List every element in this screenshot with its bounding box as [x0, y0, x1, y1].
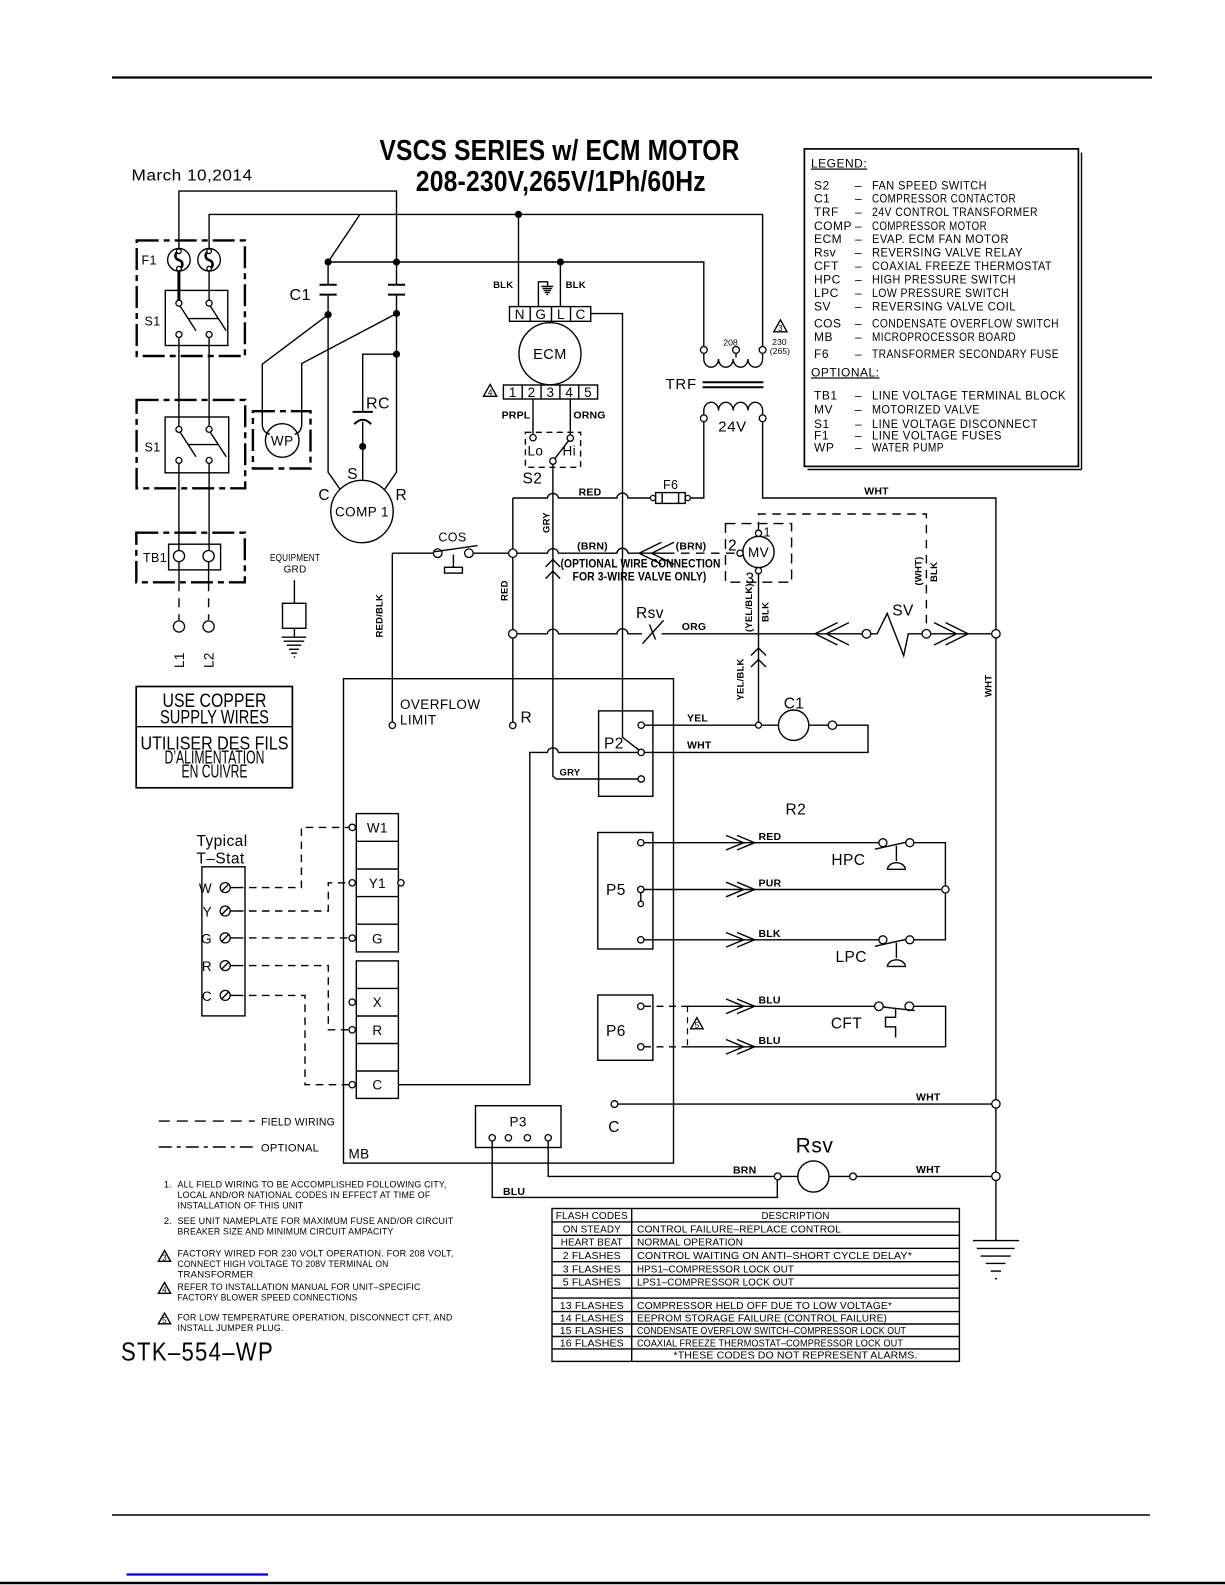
svg-text:ORNG: ORNG [573, 410, 605, 422]
svg-text:ORG: ORG [682, 621, 707, 633]
svg-text:2.: 2. [164, 1216, 172, 1227]
optional wiring legend [159, 1143, 319, 1155]
connector P3 [476, 1106, 562, 1148]
TB1 terminal block enclosure [136, 533, 245, 583]
svg-text:COMPRESSOR HELD OFF DUE TO LOW: COMPRESSOR HELD OFF DUE TO LOW VOLTAGE* [637, 1301, 892, 1312]
svg-text:FACTORY BLOWER SPEED CONNECTIO: FACTORY BLOWER SPEED CONNECTIONS [178, 1293, 358, 1304]
svg-text:MOTORIZED VALVE: MOTORIZED VALVE [872, 403, 980, 417]
connector P2 [599, 711, 653, 796]
svg-text:LPC: LPC [836, 949, 867, 966]
S1 lower dashed enclosure [137, 400, 246, 488]
svg-text:ECM: ECM [814, 232, 842, 246]
svg-text:TRANSFORMER: TRANSFORMER [178, 1270, 254, 1281]
BLK flow chevrons [726, 933, 755, 948]
thermostat label [197, 833, 248, 868]
equipment ground symbol [282, 580, 307, 657]
svg-text:TRF: TRF [665, 376, 697, 393]
field wire R to R [236, 966, 349, 1030]
svg-text:LIMIT: LIMIT [400, 713, 437, 728]
node PUR end [942, 886, 949, 893]
fuse F6 [650, 493, 690, 504]
svg-text:COS: COS [814, 316, 842, 330]
disconnect switch S1 (upper) [165, 290, 228, 345]
svg-text:24V: 24V [718, 419, 747, 436]
wire RED vertical to R pin [512, 498, 514, 722]
F1 fuse block dashed enclosure [137, 240, 245, 356]
svg-text:F6: F6 [663, 478, 678, 492]
svg-text:HIGH PRESSURE SWITCH: HIGH PRESSURE SWITCH [872, 273, 1016, 287]
terminal W1 pin [349, 824, 355, 830]
svg-text:C1: C1 [290, 287, 311, 304]
svg-text:2 FLASHES: 2 FLASHES [563, 1251, 621, 1262]
svg-text:4: 4 [565, 385, 573, 400]
note 2 [164, 1216, 454, 1238]
transformer TRF primary coil [700, 347, 766, 368]
svg-text:L2: L2 [202, 652, 217, 668]
svg-text:W: W [199, 881, 212, 896]
svg-text:5: 5 [584, 385, 592, 400]
svg-text:C: C [576, 307, 586, 322]
svg-text:16 FLASHES: 16 FLASHES [560, 1338, 624, 1349]
wire TB1-2 to L2 [208, 562, 210, 620]
wire C1 pole2 to COMP R [385, 314, 397, 490]
svg-text:P5: P5 [606, 882, 626, 899]
wire COS branch [392, 552, 433, 554]
svg-text:COAXIAL FREEZE THERMOSTAT: COAXIAL FREEZE THERMOSTAT [872, 259, 1052, 273]
warning triangle 5 [691, 1018, 703, 1030]
equipment ground label [270, 553, 320, 576]
svg-text:TRANSFORMER SECONDARY FUSE: TRANSFORMER SECONDARY FUSE [872, 347, 1059, 361]
wire branch diagonal to C1 line 1 [328, 214, 360, 262]
svg-text:2: 2 [528, 385, 536, 400]
svg-text:P3: P3 [510, 1115, 527, 1130]
svg-text:24V CONTROL TRANSFORMER: 24V CONTROL TRANSFORMER [872, 205, 1038, 219]
Rsv left terminal [774, 1173, 781, 1180]
svg-text:C1: C1 [814, 192, 830, 206]
microprocessor board MB outline [344, 679, 674, 1163]
svg-text:R: R [202, 959, 212, 974]
motorized valve MV dashed enclosure [726, 524, 792, 583]
svg-text:WP: WP [814, 440, 834, 454]
svg-text:TB1: TB1 [143, 551, 167, 565]
t-stat terminal C [202, 989, 236, 1004]
overflow limit pin 1 [389, 722, 395, 728]
P3 pin 1 [489, 1135, 495, 1141]
svg-text:FACTORY WIRED FOR 230 VOLT OPE: FACTORY WIRED FOR 230 VOLT OPERATION. FO… [178, 1249, 454, 1260]
P3 pin 3 [524, 1135, 530, 1141]
warning triangle 3 with 230(265) [770, 320, 790, 356]
svg-text:EQUIPMENT: EQUIPMENT [270, 553, 320, 564]
P5 pin 3 [638, 937, 644, 943]
svg-text:INSTALLATION OF THIS UNIT: INSTALLATION OF THIS UNIT [178, 1201, 304, 1212]
P6 pin 2 [638, 1044, 644, 1050]
terminal C pin [349, 1082, 355, 1088]
GRY flow chevrons [546, 559, 561, 578]
P6 pin 1 [638, 1003, 644, 1009]
svg-text:BLU: BLU [503, 1186, 525, 1198]
svg-text:G: G [372, 932, 383, 947]
legend entries [814, 178, 1059, 361]
wire MV pin3 down to YEL junction [758, 574, 760, 722]
svg-text:CONDENSATE OVERFLOW SWITCH–COM: CONDENSATE OVERFLOW SWITCH–COMPRESSOR LO… [637, 1326, 906, 1337]
svg-text:CFT: CFT [814, 259, 839, 273]
svg-text:MV: MV [814, 403, 833, 417]
svg-text:208-230V,265V/1Ph/60Hz: 208-230V,265V/1Ph/60Hz [416, 166, 706, 198]
svg-text:STK–554–WP: STK–554–WP [121, 1337, 274, 1367]
terminal G pin [349, 935, 355, 941]
connector P6 [598, 995, 653, 1060]
svg-text:X: X [373, 995, 382, 1010]
wire WHT Rsv to rail [856, 1175, 991, 1177]
svg-text:GRD: GRD [284, 565, 307, 576]
wire RED from S2 to TRF via F6 [513, 493, 651, 498]
wire fuse1 to S1 pole1 (heavy) [177, 271, 180, 300]
terminal R pin [349, 1027, 355, 1033]
svg-text:WHT: WHT [864, 486, 889, 498]
node RED-ORG junction [509, 630, 517, 638]
field wire C to C [236, 995, 349, 1084]
svg-text:C: C [318, 487, 330, 504]
motorized valve MV [743, 536, 774, 567]
svg-text:BRN: BRN [733, 1165, 756, 1177]
wire YEL P2 pin1 to C1 coil [644, 724, 778, 726]
svg-text:YEL/BLK: YEL/BLK [736, 658, 747, 700]
svg-text:–: – [855, 388, 862, 402]
wire S1 upper to S1 lower pole2 [208, 338, 210, 427]
svg-text:S2: S2 [523, 471, 543, 488]
svg-text:R: R [396, 487, 408, 504]
svg-text:COMPRESSOR MOTOR: COMPRESSOR MOTOR [872, 219, 987, 233]
P5 pin 2 [638, 886, 644, 906]
svg-text:HEART BEAT: HEART BEAT [561, 1238, 623, 1249]
svg-text:–: – [855, 246, 862, 260]
svg-text:13 FLASHES: 13 FLASHES [560, 1301, 624, 1312]
svg-text:5: 5 [695, 1021, 700, 1030]
svg-text:SV: SV [892, 603, 914, 620]
wire BLK to ECM L [559, 262, 561, 307]
wire bus to TRF primary left [328, 262, 704, 346]
svg-text:MB: MB [349, 1147, 370, 1162]
run capacitor RC [353, 354, 397, 446]
node: C1 line2 junction [393, 258, 400, 265]
transformer TRF secondary coil [700, 402, 766, 421]
svg-text:–: – [855, 286, 862, 300]
svg-text:Y: Y [203, 905, 212, 920]
node RC tap [393, 351, 400, 358]
svg-text:Typical: Typical [197, 833, 248, 850]
svg-text:RED: RED [579, 487, 602, 499]
svg-text:5: 5 [162, 1316, 167, 1325]
wire SV right to WHT rail [931, 633, 992, 635]
svg-text:G: G [201, 932, 212, 947]
svg-text:RED/BLK: RED/BLK [375, 594, 386, 638]
svg-text:GRY: GRY [542, 512, 553, 533]
svg-text:–: – [855, 178, 862, 192]
svg-text:208: 208 [723, 338, 738, 348]
svg-text:WHT: WHT [916, 1092, 941, 1104]
svg-text:1.: 1. [164, 1180, 172, 1191]
svg-text:Hi: Hi [563, 444, 577, 459]
flash codes table text [556, 1211, 918, 1362]
svg-text:FOR LOW TEMPERATURE OPERATION,: FOR LOW TEMPERATURE OPERATION, DISCONNEC… [178, 1313, 453, 1324]
wire fuse2 to S1 pole2 [208, 271, 210, 300]
svg-text:1: 1 [509, 385, 517, 400]
field wire G to G [236, 937, 349, 939]
node YEL-MV junction [756, 722, 762, 728]
node below C1 pole2 [393, 310, 400, 317]
disconnect switch S1 (lower) [165, 417, 229, 473]
water pump WP [265, 424, 299, 458]
svg-text:15 FLASHES: 15 FLASHES [560, 1326, 624, 1337]
wire ECM 2 to S2 Lo [532, 399, 534, 434]
node Rsv-WHT at rail [992, 1172, 1000, 1180]
note triangle 5 [158, 1313, 452, 1335]
svg-text:–: – [855, 300, 862, 314]
svg-text:(265): (265) [770, 346, 790, 356]
svg-text:LOW PRESSURE SWITCH: LOW PRESSURE SWITCH [872, 286, 1009, 300]
C1 contact pole 1 [320, 262, 337, 315]
svg-text:14 FLASHES: 14 FLASHES [560, 1313, 624, 1324]
wire to WP left [262, 315, 328, 435]
svg-text:F1: F1 [142, 254, 157, 268]
svg-text:Rsv: Rsv [814, 246, 836, 260]
RED flow chevrons [726, 835, 755, 850]
svg-text:SV: SV [814, 300, 831, 314]
svg-text:3: 3 [547, 385, 555, 400]
BLU upper flow chevrons [726, 999, 755, 1014]
node L1 [172, 621, 187, 668]
wire BLU upper to CFT [688, 1005, 876, 1007]
svg-text:5 FLASHES: 5 FLASHES [563, 1277, 621, 1288]
svg-text:–: – [855, 205, 862, 219]
terminal Y1 right pin [398, 880, 404, 886]
svg-text:G: G [535, 307, 546, 322]
svg-text:BREAKER SIZE AND MINIMUM CIRCU: BREAKER SIZE AND MINIMUM CIRCUIT AMPACIT… [178, 1227, 394, 1238]
svg-text:WHT: WHT [687, 740, 712, 752]
compressor motor COMP 1 [331, 480, 393, 542]
t-stat terminal G [201, 932, 236, 947]
connector P5 [598, 833, 653, 950]
svg-text:YEL: YEL [687, 713, 708, 725]
svg-text:SUPPLY WIRES: SUPPLY WIRES [160, 707, 269, 729]
svg-text:P2: P2 [604, 736, 624, 753]
COMP terminal labels [318, 466, 407, 504]
svg-text:COS: COS [438, 531, 466, 545]
C1 right terminal [828, 721, 836, 729]
node: C1 line1 junction [325, 258, 332, 265]
svg-text:INSTALL JUMPER PLUG.: INSTALL JUMPER PLUG. [178, 1323, 284, 1334]
P5 pin 1 [638, 840, 644, 846]
wire ORG contact to SV left [662, 633, 863, 635]
svg-text:C1: C1 [784, 696, 805, 713]
svg-text:–: – [855, 273, 862, 287]
node RC bottom [359, 443, 366, 450]
wire HPC to LPC rail [914, 843, 946, 940]
reversing valve relay coil Rsv [781, 1161, 856, 1192]
node: ECM N tap [515, 211, 522, 218]
MV pin 2 [728, 538, 743, 557]
SV right flow chevrons [934, 623, 968, 645]
svg-text:R2: R2 [785, 802, 806, 819]
svg-text:S1: S1 [145, 315, 161, 329]
note triangle 3 [158, 1249, 453, 1281]
wire BRN from RED junction to MV pin 2 [517, 548, 737, 553]
t-stat terminal W [199, 881, 236, 896]
fan speed switch S2 [525, 432, 580, 467]
wire C1 pole1 to COMP C [328, 315, 340, 490]
svg-text:OVERFLOW: OVERFLOW [400, 697, 480, 712]
svg-text:–: – [855, 403, 862, 417]
svg-text:–: – [855, 192, 862, 206]
svg-text:1: 1 [764, 526, 771, 540]
svg-text:EEPROM STORAGE FAILURE (CONTRO: EEPROM STORAGE FAILURE (CONTROL FAILURE) [637, 1313, 887, 1324]
svg-text:4: 4 [162, 1285, 167, 1294]
wire L1 leg: fuse1 top to C1 contact 2 [179, 191, 397, 262]
optional valve note text [561, 559, 721, 584]
svg-text:(WHT): (WHT) [914, 557, 925, 586]
svg-text:OPTIONAL: OPTIONAL [261, 1143, 319, 1155]
node: ECM L tap [557, 258, 564, 265]
high pressure switch HPC [875, 839, 914, 870]
svg-text:PRPL: PRPL [502, 410, 531, 422]
svg-text:CFT: CFT [831, 1016, 862, 1033]
WP dashed enclosure [253, 411, 311, 468]
svg-text:VSCS SERIES w/ ECM MOTOR: VSCS SERIES w/ ECM MOTOR [380, 135, 740, 167]
wire BLU lower [688, 1046, 946, 1048]
wire L2 leg: fuse2 top to TRF primary right [209, 214, 763, 346]
svg-text:(BRN): (BRN) [676, 541, 707, 553]
svg-text:C: C [202, 989, 212, 1004]
svg-text:2: 2 [728, 538, 737, 555]
fuse F1-1 [168, 248, 191, 271]
wire RED P5 to HPC [644, 842, 879, 844]
svg-text:C: C [372, 1078, 382, 1093]
C1 contact pole 2 [388, 262, 405, 314]
TB1 terminals [169, 544, 221, 570]
ECM terminal strip 1 2 3 4 5 [503, 385, 597, 400]
wire WHT C pin to rail [618, 1103, 992, 1105]
P3 pin 4 [545, 1135, 551, 1141]
svg-text:LPC: LPC [814, 286, 839, 300]
svg-text:–: – [855, 316, 862, 330]
P2 pin 3 [638, 776, 644, 782]
svg-text:P6: P6 [606, 1023, 626, 1040]
evaporator fan motor ECM [519, 323, 581, 385]
transformer core [703, 382, 764, 387]
svg-text:FAN SPEED SWITCH: FAN SPEED SWITCH [872, 178, 987, 192]
wire PUR P5 to rail [644, 889, 941, 891]
svg-text:CONTROL FAILURE–REPLACE CONTRO: CONTROL FAILURE–REPLACE CONTROL [637, 1224, 841, 1235]
field wire W to W1 [236, 827, 349, 887]
svg-text:WATER PUMP: WATER PUMP [872, 440, 944, 454]
ECM terminal strip N G L C [510, 307, 591, 322]
P2 pin 2 [638, 749, 644, 755]
t-stat terminal R [202, 959, 236, 974]
svg-text:HPC: HPC [814, 273, 841, 287]
svg-text:EN CUIVRE: EN CUIVRE [182, 762, 248, 782]
svg-text:REVERSING VALVE RELAY: REVERSING VALVE RELAY [872, 246, 1023, 260]
svg-text:LPS1–COMPRESSOR LOCK OUT: LPS1–COMPRESSOR LOCK OUT [637, 1277, 794, 1288]
svg-text:BLK: BLK [761, 602, 772, 622]
svg-text:N: N [515, 307, 525, 322]
svg-text:FOR 3-WIRE VALVE ONLY): FOR 3-WIRE VALVE ONLY) [573, 572, 707, 584]
node below C1 pole1 [325, 311, 332, 318]
wire COS to overflow limit pin [391, 553, 393, 722]
warning triangle 4 [484, 384, 497, 397]
flash codes table [552, 1209, 959, 1362]
svg-text:FLASH CODES: FLASH CODES [556, 1211, 628, 1222]
svg-text:*THESE CODES DO NOT REPRESENT: *THESE CODES DO NOT REPRESENT ALARMS. [674, 1351, 918, 1362]
svg-text:CONDENSATE OVERFLOW SWITCH: CONDENSATE OVERFLOW SWITCH [872, 316, 1059, 330]
reversing valve coil SV [862, 613, 931, 655]
svg-text:C: C [608, 1119, 620, 1136]
wire ECM C to P2 [591, 314, 639, 750]
svg-text:WHT: WHT [916, 1164, 941, 1176]
node L2 [202, 621, 217, 668]
svg-text:Y1: Y1 [369, 876, 386, 891]
svg-text:TB1: TB1 [814, 388, 838, 402]
BLU lower flow chevrons [726, 1040, 755, 1055]
wire RC to COMP S [362, 447, 364, 481]
MV pin 3 [745, 568, 761, 588]
svg-text:LEGEND:: LEGEND: [811, 157, 867, 171]
svg-text:BLK: BLK [493, 280, 513, 291]
condensate overflow switch COS [433, 546, 477, 574]
svg-text:EVAP. ECM FAN MOTOR: EVAP. ECM FAN MOTOR [872, 232, 1009, 246]
svg-text:COMP 1: COMP 1 [335, 505, 389, 520]
svg-text:REVERSING VALVE COIL: REVERSING VALVE COIL [872, 300, 1016, 314]
svg-text:R: R [521, 710, 533, 727]
svg-text:–: – [855, 347, 862, 361]
svg-text:ON STEADY: ON STEADY [563, 1224, 621, 1235]
svg-text:(YEL/BLK): (YEL/BLK) [744, 583, 755, 632]
svg-text:BLK: BLK [566, 280, 586, 291]
legend optional entries [814, 388, 1066, 454]
svg-text:3: 3 [162, 1253, 167, 1262]
svg-text:Lo: Lo [528, 444, 544, 459]
dashed wire MV pin1 to SV right [759, 514, 927, 629]
svg-text:T–Stat: T–Stat [197, 851, 245, 868]
svg-text:W1: W1 [367, 821, 388, 836]
svg-text:S1: S1 [145, 441, 161, 455]
svg-text:L: L [557, 307, 565, 322]
wire S1 upper to S1 lower pole1 [178, 338, 180, 427]
svg-text:FIELD WIRING: FIELD WIRING [261, 1117, 335, 1129]
svg-text:RED: RED [759, 831, 782, 843]
svg-text:RC: RC [366, 396, 390, 413]
wire CFT right rail [914, 1006, 946, 1047]
dashed jumper P6 [644, 1006, 688, 1047]
svg-text:BLU: BLU [759, 1035, 781, 1047]
YEL/BLK flow chevrons [751, 648, 766, 667]
svg-text:COAXIAL FREEZE THERMOSTAT–COMP: COAXIAL FREEZE THERMOSTAT–COMPRESSOR LOC… [637, 1338, 903, 1349]
svg-text:L1: L1 [172, 652, 187, 668]
wire TB1-1 to L1 [178, 562, 180, 620]
wire S1 lower to TB1 terminal 1 [178, 463, 180, 550]
terminal column W1 Y1 G [356, 814, 398, 952]
wire BLK to ECM N [518, 214, 520, 306]
wire C1 to WHT return [644, 725, 868, 752]
svg-text:–: – [855, 330, 862, 344]
wire BLU P3 pin1 to Rsv [492, 1141, 777, 1197]
low pressure switch LPC [875, 936, 914, 967]
svg-text:Rsv: Rsv [636, 605, 664, 622]
ground symbol right [973, 1241, 1019, 1279]
P2 pin 1 [638, 722, 644, 728]
svg-text:HPC: HPC [831, 852, 865, 869]
svg-text:MB: MB [814, 330, 833, 344]
svg-text:BLU: BLU [759, 995, 781, 1007]
